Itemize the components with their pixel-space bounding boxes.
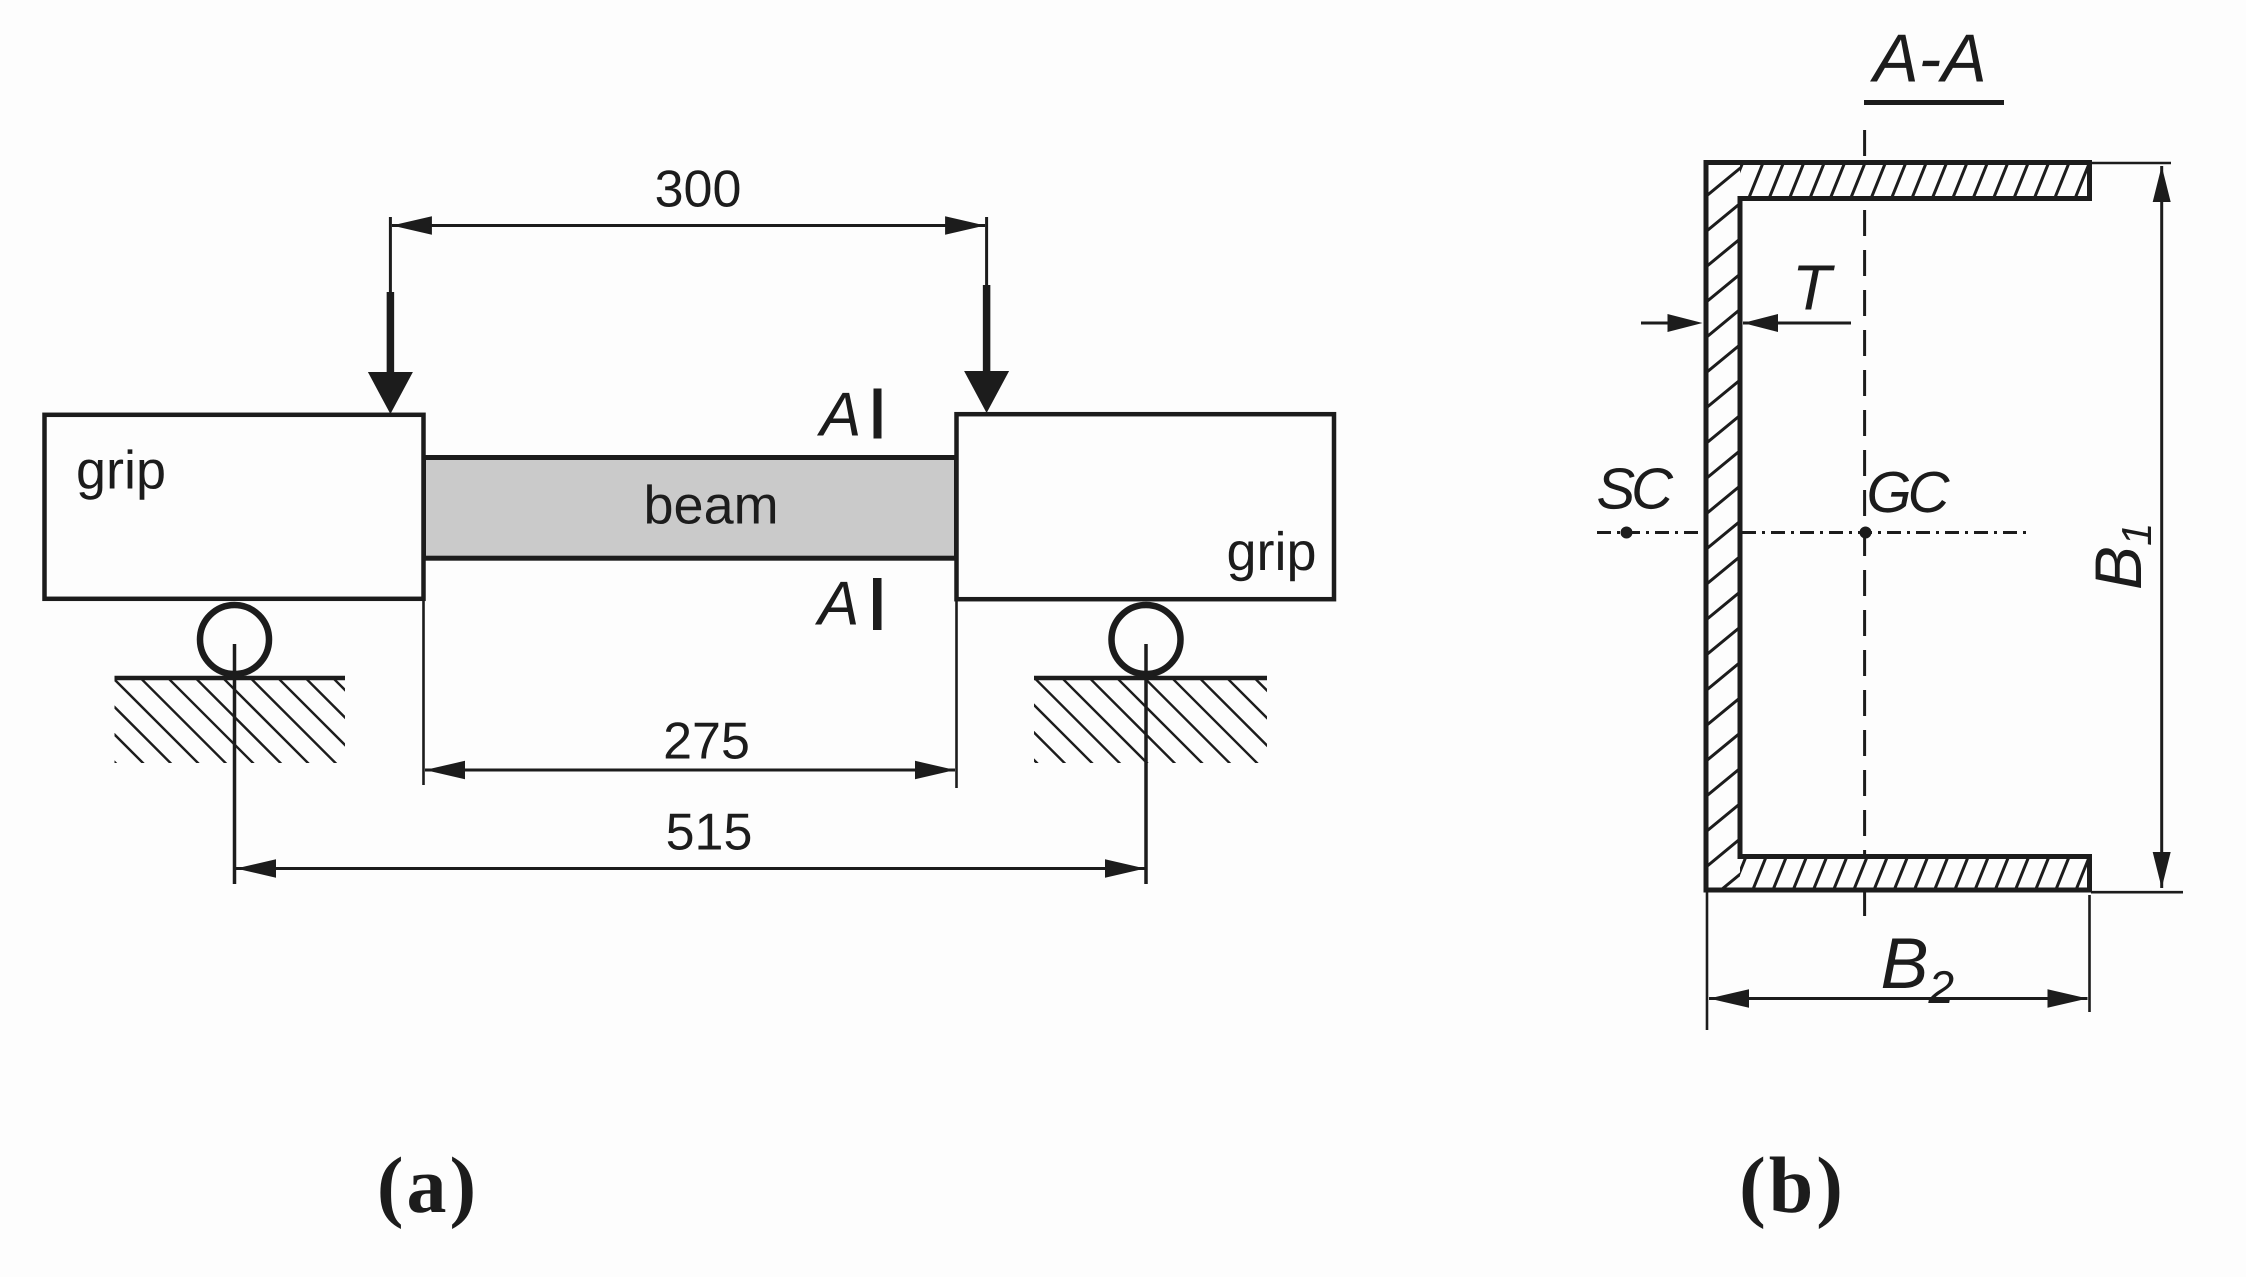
svg-text:515: 515 <box>666 804 753 862</box>
right roller support <box>1112 605 1181 884</box>
svg-text:SC: SC <box>1597 457 1675 522</box>
force arrow left <box>368 217 413 414</box>
svg-text:(a): (a) <box>377 1142 479 1230</box>
force arrow right <box>964 217 1009 413</box>
svg-text:GC: GC <box>1867 460 1951 525</box>
section mark A bottom <box>814 570 882 639</box>
label grip left <box>76 441 166 501</box>
web hatch <box>1698 0 1748 909</box>
caption (b) <box>1739 1142 1846 1230</box>
label beam <box>644 476 779 536</box>
right grip <box>957 414 1335 599</box>
label grip right <box>1227 522 1317 582</box>
svg-text:grip: grip <box>1227 522 1317 582</box>
beam <box>424 458 957 559</box>
channel outline stroke <box>1706 163 2090 891</box>
caption (a) <box>377 1142 479 1230</box>
svg-text:A: A <box>814 570 859 639</box>
channel section outline <box>1706 163 2090 891</box>
svg-text:A: A <box>816 381 861 450</box>
dimension T <box>1641 252 1851 333</box>
left ground line <box>115 676 346 681</box>
left ground hatch <box>0 678 421 766</box>
svg-text:(b): (b) <box>1739 1142 1846 1230</box>
dimension 275 <box>424 601 957 788</box>
svg-text:A-A: A-A <box>1869 21 1986 97</box>
svg-text:grip: grip <box>76 441 166 501</box>
left grip <box>45 415 424 599</box>
dimension B2 <box>1707 892 2090 1030</box>
section title A-A <box>1864 21 2004 103</box>
svg-text:275: 275 <box>663 713 750 771</box>
dimension B1 <box>2091 163 2183 892</box>
section mark A top <box>816 381 882 450</box>
top flange hatch <box>1705 155 2113 205</box>
left roller support <box>200 605 269 884</box>
svg-text:300: 300 <box>655 161 742 219</box>
GC point <box>1860 460 1951 539</box>
dimension 300 <box>392 161 985 235</box>
vertical dashed centerline <box>1863 130 1866 917</box>
SC point <box>1597 457 1675 539</box>
dimension 515 <box>236 804 1145 878</box>
horizontal dash-dot centerline <box>1597 531 2032 534</box>
right ground hatch <box>897 678 1343 766</box>
svg-text:T: T <box>1792 252 1835 324</box>
right ground line <box>1034 676 1267 681</box>
bottom flange hatch <box>1727 845 2115 905</box>
svg-text:beam: beam <box>644 476 779 536</box>
